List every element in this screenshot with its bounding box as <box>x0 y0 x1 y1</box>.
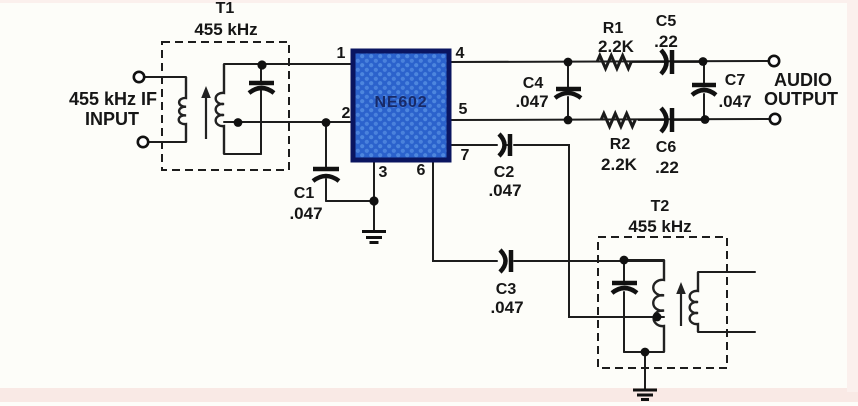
svg-text:455 kHz IF: 455 kHz IF <box>69 89 157 109</box>
svg-text:455 kHz: 455 kHz <box>628 217 691 236</box>
svg-text:3: 3 <box>379 164 388 181</box>
svg-text:T2: T2 <box>651 198 670 215</box>
svg-text:R1: R1 <box>603 20 624 37</box>
svg-text:.22: .22 <box>655 158 679 177</box>
svg-text:1: 1 <box>337 45 346 62</box>
svg-text:455 kHz: 455 kHz <box>194 20 257 39</box>
svg-text:AUDIO: AUDIO <box>774 70 832 90</box>
svg-text:T1: T1 <box>216 0 235 17</box>
svg-text:INPUT: INPUT <box>85 109 139 129</box>
svg-text:C3: C3 <box>496 281 517 298</box>
svg-text:7: 7 <box>461 147 470 164</box>
svg-text:C6: C6 <box>656 139 677 156</box>
svg-text:6: 6 <box>417 162 426 179</box>
svg-text:.22: .22 <box>654 32 678 51</box>
svg-text:.047: .047 <box>490 298 523 317</box>
svg-text:.047: .047 <box>718 92 751 111</box>
svg-text:R2: R2 <box>610 136 631 153</box>
svg-text:OUTPUT: OUTPUT <box>764 89 838 109</box>
svg-text:.047: .047 <box>289 204 322 223</box>
svg-text:4: 4 <box>456 45 465 62</box>
svg-text:C5: C5 <box>656 13 677 30</box>
svg-text:.047: .047 <box>515 92 548 111</box>
svg-text:2.2K: 2.2K <box>598 37 635 56</box>
svg-text:2.2K: 2.2K <box>601 155 638 174</box>
svg-text:C1: C1 <box>294 185 315 202</box>
svg-text:2: 2 <box>342 105 351 122</box>
svg-text:.047: .047 <box>488 181 521 200</box>
svg-text:C2: C2 <box>494 164 515 181</box>
svg-text:C4: C4 <box>523 75 544 92</box>
svg-text:NE602: NE602 <box>375 94 428 111</box>
svg-text:C7: C7 <box>725 72 746 89</box>
svg-text:5: 5 <box>459 101 468 118</box>
